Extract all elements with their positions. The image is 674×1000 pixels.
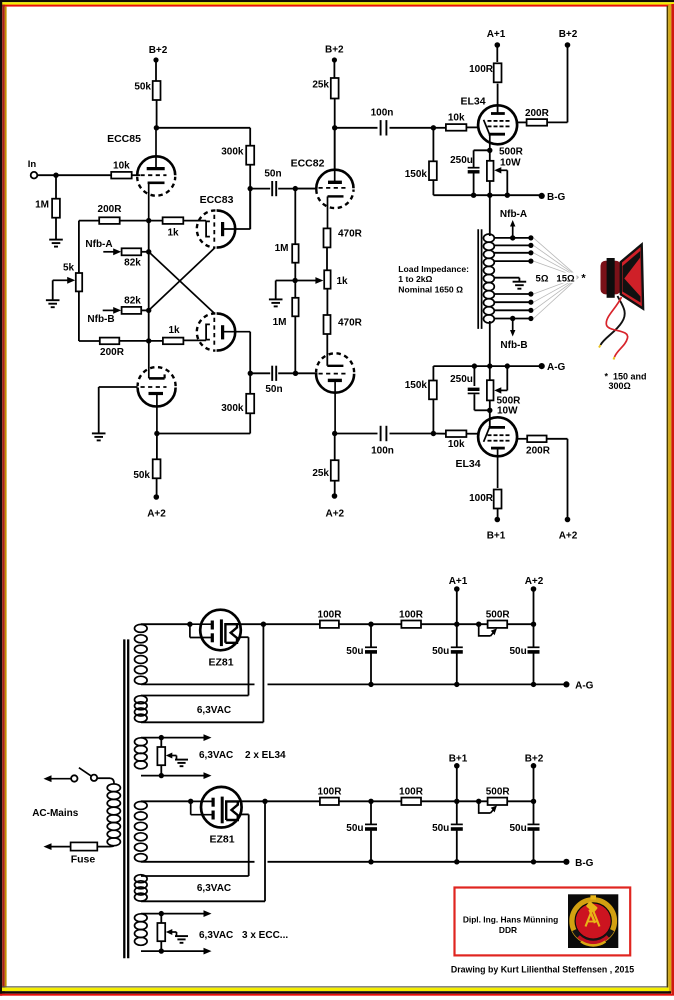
svg-text:2 x EL34: 2 x EL34 xyxy=(245,750,286,761)
svg-text:DDR: DDR xyxy=(499,925,517,935)
svg-text:A+2: A+2 xyxy=(559,531,578,542)
svg-text:10k: 10k xyxy=(448,439,465,450)
svg-text:300k: 300k xyxy=(221,403,244,414)
svg-text:10k: 10k xyxy=(113,161,130,172)
svg-text:A+2: A+2 xyxy=(525,576,544,587)
svg-text:ECC83: ECC83 xyxy=(200,194,234,206)
svg-text:100R: 100R xyxy=(318,786,343,797)
svg-text:500R: 500R xyxy=(486,609,511,620)
svg-text:* 150 and: * 150 and xyxy=(605,371,647,381)
svg-text:100R: 100R xyxy=(399,786,424,797)
svg-text:200R: 200R xyxy=(526,445,551,456)
svg-text:50u: 50u xyxy=(509,823,526,834)
svg-text:6,3VAC: 6,3VAC xyxy=(197,883,231,894)
svg-text:10k: 10k xyxy=(448,113,465,124)
svg-text:200R: 200R xyxy=(100,347,125,358)
svg-text:250u: 250u xyxy=(450,374,473,385)
svg-text:6,3VAC: 6,3VAC xyxy=(197,705,231,716)
svg-text:100n: 100n xyxy=(371,108,394,119)
svg-text:50n: 50n xyxy=(264,169,281,180)
svg-text:A+2: A+2 xyxy=(325,509,344,520)
svg-text:Drawing by Kurt Lilienthal Ste: Drawing by Kurt Lilienthal Steffensen , … xyxy=(451,964,634,974)
svg-text:Nfb-A: Nfb-A xyxy=(85,239,112,250)
svg-text:Fuse: Fuse xyxy=(71,854,96,866)
svg-text:A-G: A-G xyxy=(547,362,566,373)
svg-text:Load Impedance:: Load Impedance: xyxy=(398,264,469,274)
svg-text:15Ω: 15Ω xyxy=(556,274,575,285)
svg-text:50u: 50u xyxy=(432,823,449,834)
svg-text:B-G: B-G xyxy=(575,858,594,869)
svg-text:100R: 100R xyxy=(469,493,494,504)
svg-text:Dipl. Ing. Hans Münning: Dipl. Ing. Hans Münning xyxy=(463,914,558,924)
svg-text:50u: 50u xyxy=(346,823,363,834)
svg-text:25k: 25k xyxy=(312,468,329,479)
svg-text:50k: 50k xyxy=(133,470,150,481)
svg-text:EL34: EL34 xyxy=(460,96,485,108)
svg-text:A+2: A+2 xyxy=(147,509,166,520)
svg-text:82k: 82k xyxy=(124,295,141,306)
svg-text:1M: 1M xyxy=(273,317,287,328)
svg-text:Nfb-A: Nfb-A xyxy=(500,209,527,220)
svg-text:B-G: B-G xyxy=(547,192,566,203)
svg-text:100R: 100R xyxy=(399,609,424,620)
svg-text:B+2: B+2 xyxy=(525,753,544,764)
svg-text:1k: 1k xyxy=(337,276,349,287)
svg-text:100R: 100R xyxy=(318,609,343,620)
svg-text:50n: 50n xyxy=(265,384,282,395)
svg-text:Nominal 1650 Ω: Nominal 1650 Ω xyxy=(398,284,463,294)
svg-text:6,3VAC: 6,3VAC xyxy=(199,750,233,761)
svg-text:A+1: A+1 xyxy=(449,576,468,587)
svg-text:100n: 100n xyxy=(371,446,394,457)
svg-text:*: * xyxy=(581,273,586,285)
svg-text:EL34: EL34 xyxy=(455,458,480,470)
svg-text:ECC82: ECC82 xyxy=(291,157,325,169)
svg-text:3 x ECC...: 3 x ECC... xyxy=(242,930,288,941)
svg-text:50u: 50u xyxy=(432,646,449,657)
svg-text:500R: 500R xyxy=(486,786,511,797)
svg-text:AC-Mains: AC-Mains xyxy=(32,808,79,819)
svg-text:ECC85: ECC85 xyxy=(107,133,141,145)
svg-text:25k: 25k xyxy=(312,80,329,91)
svg-text:100R: 100R xyxy=(469,64,494,75)
svg-text:500R: 500R xyxy=(499,147,524,158)
svg-text:50k: 50k xyxy=(134,82,151,93)
svg-text:B+2: B+2 xyxy=(325,45,344,56)
svg-text:Nfb-B: Nfb-B xyxy=(500,340,527,351)
svg-text:5Ω: 5Ω xyxy=(536,274,549,285)
svg-text:200R: 200R xyxy=(98,204,123,215)
svg-text:10W: 10W xyxy=(500,158,521,169)
svg-text:5k: 5k xyxy=(63,263,75,274)
svg-text:B+1: B+1 xyxy=(449,753,468,764)
svg-text:300k: 300k xyxy=(221,147,244,158)
svg-text:1M: 1M xyxy=(275,243,289,254)
svg-text:A-G: A-G xyxy=(575,681,594,692)
svg-text:250u: 250u xyxy=(450,155,473,166)
svg-text:470R: 470R xyxy=(338,318,363,329)
svg-text:B+1: B+1 xyxy=(487,531,506,542)
svg-text:B+2: B+2 xyxy=(149,45,168,56)
svg-text:50u: 50u xyxy=(509,646,526,657)
svg-text:6,3VAC: 6,3VAC xyxy=(199,930,233,941)
svg-text:82k: 82k xyxy=(124,258,141,269)
svg-text:10W: 10W xyxy=(497,405,518,416)
svg-text:1M: 1M xyxy=(35,200,49,211)
svg-text:In: In xyxy=(28,159,37,170)
svg-text:470R: 470R xyxy=(338,229,363,240)
svg-text:1k: 1k xyxy=(167,228,179,239)
svg-text:300Ω: 300Ω xyxy=(609,381,631,391)
svg-text:200R: 200R xyxy=(525,108,550,119)
svg-text:EZ81: EZ81 xyxy=(209,834,234,846)
svg-text:1 to 2kΩ: 1 to 2kΩ xyxy=(398,274,432,284)
svg-text:B+2: B+2 xyxy=(559,29,578,40)
svg-text:A+1: A+1 xyxy=(487,29,506,40)
svg-text:EZ81: EZ81 xyxy=(208,657,233,669)
svg-text:150k: 150k xyxy=(405,380,428,391)
svg-text:150k: 150k xyxy=(405,169,428,180)
svg-text:50u: 50u xyxy=(346,646,363,657)
svg-text:Nfb-B: Nfb-B xyxy=(87,314,114,325)
svg-text:1k: 1k xyxy=(168,325,180,336)
